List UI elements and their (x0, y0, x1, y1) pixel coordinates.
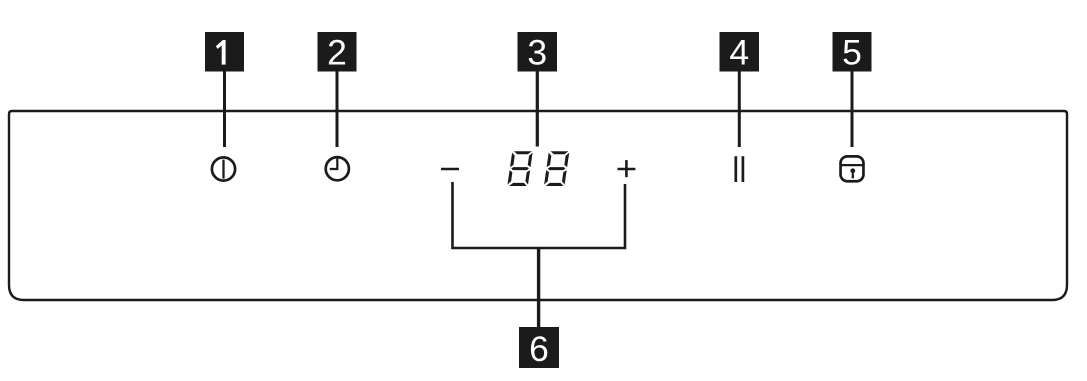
seven-segment display digit 8 (right) (544, 151, 569, 186)
lock icon (child safety) (840, 156, 865, 181)
label 6 (519, 327, 559, 369)
power icon (on/off) (212, 157, 235, 180)
label 1 (205, 32, 244, 72)
bracket joining minus and plus (453, 182, 626, 248)
leader line 4 (738, 71, 741, 147)
control panel outline (9, 111, 1067, 300)
leader line 5 (851, 71, 854, 147)
leader line 1 (223, 71, 226, 147)
label 3 (518, 32, 558, 72)
seven-segment display digit 8 (left) (507, 151, 532, 186)
minus button (441, 168, 459, 171)
label 4 (720, 32, 760, 72)
svg-text:6: 6 (529, 329, 549, 369)
label 2 (318, 32, 357, 72)
plus button (618, 160, 636, 177)
svg-text:3: 3 (527, 32, 547, 72)
clock icon (timer) (326, 157, 349, 180)
leader line 2 (336, 71, 339, 147)
svg-text:4: 4 (729, 32, 749, 72)
leader line 6 (stem from bracket) (537, 248, 540, 327)
svg-text:5: 5 (842, 32, 862, 72)
leader line 3 (536, 71, 539, 147)
label 5 (833, 32, 872, 72)
svg-text:2: 2 (327, 32, 347, 72)
pause icon (two bars) (736, 156, 743, 182)
